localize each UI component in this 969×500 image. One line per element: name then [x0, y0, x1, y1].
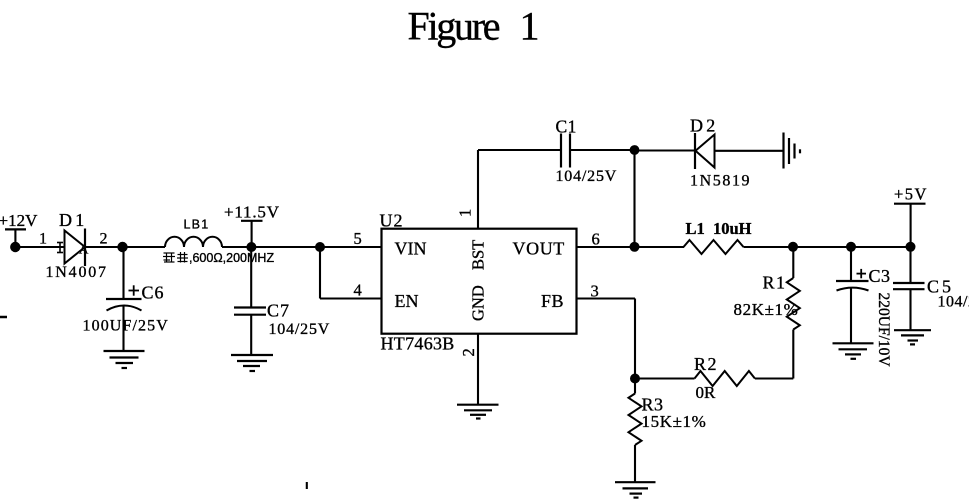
- op-amp U2 HT7463B body: [382, 229, 577, 334]
- resistor R3: [629, 394, 642, 446]
- title Figure 1: [408, 4, 540, 49]
- svg-text:+11.5V: +11.5V: [224, 203, 280, 222]
- junction at R1 top: [788, 242, 798, 252]
- wire junction to C5: [909, 247, 911, 283]
- wire junction to R1: [792, 247, 794, 278]
- ground below C5: [894, 330, 931, 344]
- svg-text:R2: R2: [694, 354, 718, 374]
- junction at C7 / +11.5V: [246, 242, 256, 252]
- svg-text:C1: C1: [556, 117, 577, 137]
- terminal junction at +12V input: [10, 242, 20, 252]
- wire EN branch to pin 4: [320, 297, 382, 299]
- capacitor C7: [234, 308, 266, 315]
- svg-text:1: 1: [456, 209, 475, 217]
- svg-text:Figure: Figure: [408, 4, 501, 49]
- wire EN branch vertical: [319, 247, 321, 299]
- ground below U2: [457, 405, 499, 419]
- wire junction to C3: [850, 247, 852, 281]
- svg-text:D1: D1: [59, 210, 87, 230]
- capacitor C1: [561, 134, 570, 168]
- svg-text:+12V: +12V: [0, 211, 38, 230]
- svg-text:,600Ω,200MHZ: ,600Ω,200MHZ: [189, 251, 274, 265]
- wire BST node down to VOUT rail: [633, 150, 635, 243]
- ground below C7: [231, 355, 273, 371]
- svg-text:GND: GND: [469, 285, 488, 321]
- wire C1 to junction: [570, 149, 635, 151]
- node +11.5V power flag: [224, 203, 280, 245]
- svg-text:1N4007: 1N4007: [46, 264, 108, 281]
- wire FB down to divider: [634, 299, 636, 379]
- inductor L1: [684, 240, 744, 254]
- wire junction to R3: [634, 379, 636, 394]
- diode D2: [695, 133, 715, 169]
- ground below C3: [833, 343, 874, 359]
- ferrite bead LB1: [165, 237, 222, 247]
- svg-text:104/25V: 104/25V: [269, 321, 331, 338]
- svg-text:+5V: +5V: [894, 185, 928, 204]
- junction at C6: [117, 242, 127, 252]
- wire BST to C1: [478, 149, 561, 151]
- wire VOUT pin 6 to L1: [577, 246, 685, 248]
- svg-text:1: 1: [520, 4, 540, 49]
- svg-text:EN: EN: [395, 291, 419, 311]
- svg-text:82K±1%: 82K±1%: [734, 300, 799, 319]
- svg-text:C3: C3: [869, 266, 891, 286]
- svg-text:VIN: VIN: [395, 239, 427, 259]
- junction at VOUT/BST node: [630, 242, 640, 252]
- svg-text:C6: C6: [142, 283, 165, 303]
- wire LB1 to VIN: [222, 246, 382, 248]
- wire C6 to ground: [122, 306, 124, 351]
- wire junction to C7: [250, 247, 252, 308]
- svg-text:4: 4: [354, 281, 362, 300]
- D1 anode K mark: [57, 243, 63, 253]
- wire L1 to +5V rail: [744, 246, 911, 248]
- svg-text:2: 2: [100, 231, 108, 248]
- wire D1 cathode to LB1: [85, 246, 165, 248]
- svg-text:FB: FB: [541, 291, 564, 311]
- svg-text:R1: R1: [763, 273, 787, 293]
- resistor R2: [695, 371, 755, 386]
- svg-text:0R: 0R: [696, 383, 717, 402]
- svg-text:104/2: 104/2: [938, 294, 969, 311]
- svg-text:3: 3: [591, 281, 599, 300]
- ground rotated right of D2: [784, 133, 801, 169]
- value 磁珠,600Ω,200MHZ: [163, 251, 274, 265]
- svg-text:220UF/10V: 220UF/10V: [875, 293, 892, 368]
- svg-text:15K±1%: 15K±1%: [642, 412, 707, 431]
- svg-text:D2: D2: [690, 116, 718, 136]
- capacitor C3 polarized: [836, 269, 869, 291]
- junction at C3: [846, 242, 856, 252]
- resistor R1: [787, 278, 800, 330]
- stray tick bottom center: [306, 482, 308, 489]
- wire junction to C6: [122, 247, 124, 298]
- stray dash left edge: [0, 316, 7, 319]
- wire junction to R2: [635, 377, 695, 379]
- svg-text:A: A: [79, 242, 89, 257]
- wire BST pin 1 up: [477, 150, 479, 229]
- svg-text:L1 10uH: L1 10uH: [686, 219, 752, 238]
- svg-text:VOUT: VOUT: [513, 239, 565, 259]
- wire C7 to ground: [250, 315, 252, 355]
- junction at FB divider: [630, 374, 640, 384]
- svg-text:BST: BST: [469, 240, 488, 270]
- wire R2 to R1 bottom: [755, 377, 793, 379]
- svg-text:1: 1: [39, 231, 47, 248]
- junction at C5 / +5V: [906, 242, 916, 252]
- svg-text:100UF/25V: 100UF/25V: [83, 318, 169, 335]
- node +5V power flag: [894, 185, 928, 244]
- wire D2 anode to ground: [715, 150, 784, 152]
- wire BST node to D2 cathode: [635, 149, 696, 151]
- node +12V power flag: [0, 211, 38, 244]
- svg-text:C7: C7: [267, 301, 290, 321]
- junction at BST/D2 node: [630, 145, 640, 155]
- diode D1: [65, 229, 86, 267]
- wire +12V to D1 anode: [15, 246, 65, 248]
- svg-text:6: 6: [592, 229, 600, 248]
- svg-text:HT7463B: HT7463B: [381, 334, 455, 354]
- svg-text:1N5819: 1N5819: [690, 173, 751, 190]
- svg-text:U2: U2: [380, 211, 404, 231]
- svg-text:104/25V: 104/25V: [556, 168, 618, 185]
- wire C5 to ground: [909, 289, 911, 330]
- svg-text:2: 2: [459, 348, 478, 356]
- wire GND pin 2 down: [477, 334, 479, 405]
- ground below C6: [104, 351, 145, 368]
- capacitor C5: [893, 283, 925, 289]
- wire FB pin 3 out: [577, 297, 636, 299]
- wire R3 to ground: [634, 445, 636, 482]
- wire R1 bottom to R2: [792, 330, 794, 379]
- svg-text:5: 5: [354, 229, 362, 248]
- junction at EN branch: [315, 242, 325, 252]
- capacitor C6 polarized: [106, 285, 142, 310]
- svg-text:LB1: LB1: [184, 218, 210, 232]
- wire C3 to ground: [850, 289, 852, 344]
- ground below R3: [615, 482, 656, 497]
